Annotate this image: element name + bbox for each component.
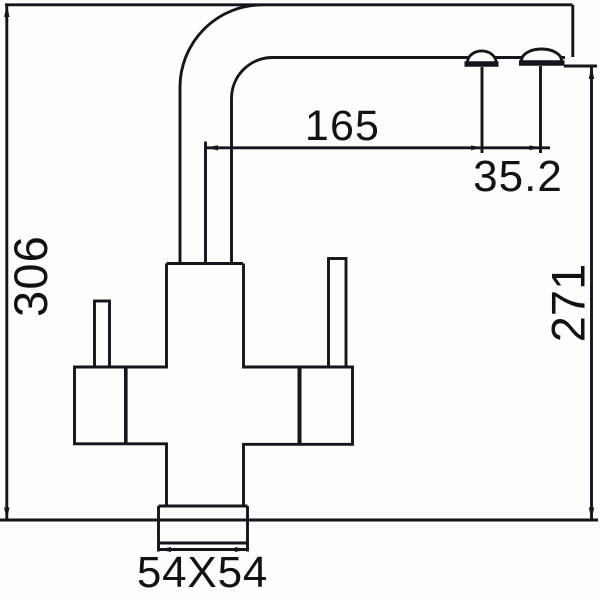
svg-text:54X54: 54X54 [137,548,268,597]
svg-text:35.2: 35.2 [473,152,563,201]
svg-text:165: 165 [305,102,380,150]
svg-text:271: 271 [542,264,595,342]
svg-text:306: 306 [4,235,57,317]
